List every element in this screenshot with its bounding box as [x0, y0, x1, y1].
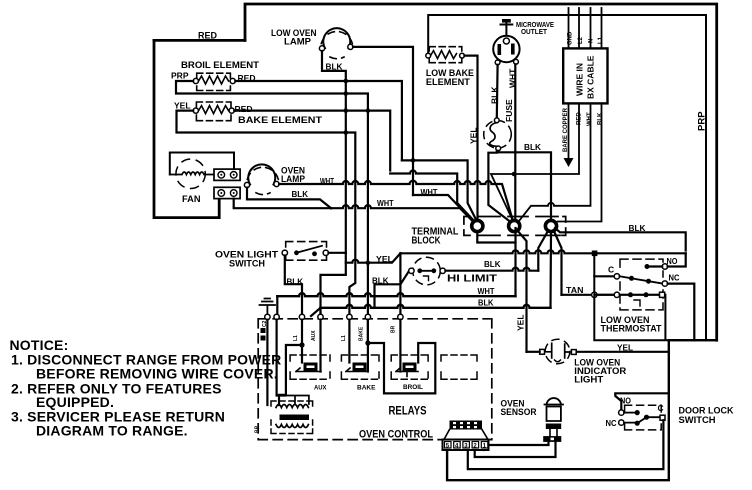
transformer secondary coil	[276, 425, 308, 428]
door lock lever dot	[644, 415, 649, 420]
svg-text:SWITCH: SWITCH	[679, 415, 716, 426]
lamp OVEN LAMP body	[248, 164, 275, 184]
wire terminal2 diagonal to YEL indicator vertical	[517, 230, 527, 352]
svg-text:THERMOSTAT: THERMOSTAT	[601, 324, 662, 335]
svg-text:BLK: BLK	[292, 189, 309, 199]
svg-text:BLK: BLK	[372, 276, 389, 286]
outer cabinet border top/right	[245, 4, 717, 340]
svg-text:NO: NO	[667, 256, 678, 266]
svg-text:NC: NC	[606, 418, 617, 428]
relay AUX dashed box	[290, 355, 330, 379]
svg-text:RED: RED	[198, 31, 217, 42]
svg-text:WIRE IN: WIRE IN	[575, 63, 585, 96]
wire fan connector lower-right to WHT run B	[234, 199, 331, 209]
small squares label marks	[261, 328, 266, 333]
hi limit contact dots	[417, 268, 422, 273]
wire YEL-bus branch down to thermostat C1	[594, 275, 614, 277]
svg-text:BAKE: BAKE	[357, 385, 376, 392]
wire wrap around broil relay	[368, 343, 435, 393]
svg-text:BROIL ELEMENT: BROIL ELEMENT	[181, 60, 259, 71]
svg-text:BLK: BLK	[478, 298, 494, 308]
wire broil left to lower run	[176, 81, 343, 94]
thermostat row2 C2 terminal	[614, 292, 619, 297]
bake element dashed box	[196, 102, 231, 121]
outer border right jog at bottom	[447, 340, 717, 480]
relay BAKE coil	[353, 363, 367, 372]
microwave outlet ground pin symbol	[501, 20, 513, 35]
junction dot bake-upper / broil-lower	[366, 108, 371, 113]
svg-text:FUSE: FUSE	[504, 99, 514, 122]
junction dot line1 at x=413	[411, 158, 416, 163]
svg-text:YEL: YEL	[469, 127, 479, 144]
connector pin strip	[443, 440, 489, 451]
wire fuse-left vertical to terminal 2 fan	[488, 151, 512, 223]
terminal block terminal 3	[545, 220, 556, 231]
wire YEL bus main run to thermostat NO riser	[400, 250, 685, 253]
thermostat switch1 lever	[620, 276, 662, 283]
wire A: oven lamp WHT run to terminal block fan	[279, 181, 513, 221]
indicator light base mark	[555, 360, 561, 362]
wire switch right terminal to riser x=345.8	[329, 252, 346, 254]
indicator light terminal left square	[540, 349, 545, 354]
plug legs to pin strip	[444, 430, 488, 440]
svg-text:PRP: PRP	[171, 71, 189, 81]
fan winding line	[170, 172, 218, 175]
thermostat NO dot	[645, 264, 650, 269]
fuse terminal bottom	[496, 146, 501, 151]
terminal block terminal 2	[509, 220, 520, 231]
svg-text:BR: BR	[391, 325, 397, 333]
wire BLK bus2 over oven control with hops	[321, 305, 551, 308]
wire AUX junction to transformer (L path)	[279, 345, 302, 405]
outlet terminal right	[514, 59, 519, 64]
oven sensor body	[545, 405, 564, 422]
wire low bake right to vertical YEL down to terminal 1	[464, 56, 477, 220]
oven light switch terminal left	[282, 250, 287, 255]
thermostat row2 mark	[634, 300, 640, 306]
svg-text:RED: RED	[577, 112, 583, 125]
oven control terminal 2	[274, 314, 279, 319]
rotated pin labels inside oven control	[255, 320, 397, 433]
wire RED below box, down then left to terminal fan	[491, 103, 579, 222]
low oven lamp terminal right	[348, 44, 353, 49]
wire terminal6 down to BAKE/wrap junction	[367, 320, 369, 372]
indicator light terminal right square	[571, 350, 576, 355]
fan connector lower circles	[218, 190, 225, 197]
bus2 left diagonal into terminal 4 riser	[311, 308, 321, 316]
oven sensor plug block	[543, 436, 561, 442]
svg-text:L1: L1	[293, 335, 299, 341]
svg-text:BX CABLE: BX CABLE	[586, 55, 596, 99]
box WIRE IN BX CABLE	[563, 48, 607, 103]
junction dot BAKE wrap feed	[365, 340, 370, 345]
broil terminal left	[193, 78, 198, 83]
svg-text:BAKE ELEMENT: BAKE ELEMENT	[238, 115, 322, 126]
broil element dashed box	[197, 73, 231, 90]
fan motor circle dashed	[176, 159, 205, 188]
wire terminal2 down to WHT bus	[514, 228, 516, 296]
svg-text:WHT: WHT	[478, 286, 496, 296]
oven control plug block (striped)	[450, 421, 483, 430]
door lock NO dot	[635, 410, 640, 415]
door lock NC terminal	[619, 420, 624, 425]
junction dots on vertical x=345.8	[344, 79, 349, 135]
relay AUX contact	[296, 368, 321, 372]
oven sensor neck stubs	[550, 429, 557, 436]
wire broil lower run continues to corner down	[349, 94, 368, 108]
wire vertical x=367.9 lower part to oven control terminal 6	[367, 113, 369, 342]
svg-text:GND: GND	[568, 31, 574, 45]
svg-text:SENSOR: SENSOR	[501, 407, 537, 418]
outlet center hole	[503, 38, 509, 44]
relay BROIL contact	[396, 368, 418, 377]
relay BAKE contact	[346, 368, 368, 372]
svg-text:LIGHT: LIGHT	[574, 375, 603, 386]
relay spare dashed box	[441, 355, 477, 379]
wire bake left to lower run	[177, 111, 356, 181]
svg-text:ELEMENT: ELEMENT	[426, 77, 470, 88]
wire NC right and down to box bottom line	[668, 284, 695, 341]
wire C down to bottom run to connector	[468, 420, 664, 469]
low oven lamp terminal left	[319, 46, 324, 51]
fuse terminal top	[494, 118, 499, 123]
wire BARE COPPER below box with earth arrow	[568, 103, 570, 158]
outlet slot left	[498, 44, 502, 55]
oven control terminal 4	[318, 314, 323, 319]
relay AUX coil	[304, 363, 318, 372]
resistor broil element zigzag	[199, 76, 229, 84]
door lock NO bar	[624, 412, 637, 414]
svg-text:BLK: BLK	[598, 112, 604, 125]
fan motor box	[170, 153, 234, 175]
indicator light filament bars	[546, 343, 570, 358]
transformer top stub	[286, 396, 309, 405]
wire vertical x=355.3 lower part jog to oven control terminal 5	[349, 181, 355, 315]
lamp LOW OVEN LAMP body	[323, 28, 350, 48]
oven control terminal 1	[265, 314, 270, 319]
svg-text:BLK: BLK	[524, 142, 542, 152]
wire L2 above box	[578, 8, 580, 48]
svg-text:OVEN CONTROL: OVEN CONTROL	[359, 429, 433, 441]
svg-text:PRP: PRP	[697, 111, 708, 131]
hi limit terminal left	[409, 268, 414, 273]
svg-text:SWITCH: SWITCH	[229, 259, 265, 270]
thermostat NC terminal	[662, 281, 667, 286]
svg-text:C: C	[658, 403, 664, 413]
wire BLK below box, down then left to terminal 3	[554, 103, 602, 223]
door lock switch top wire from NO up over to border leg	[615, 393, 669, 410]
wire oven lamp left terminal down then right (BLK) merging into run B	[247, 188, 331, 209]
wire GND above box	[568, 8, 570, 48]
relay BAKE dashed box	[341, 355, 379, 379]
oven light switch lever	[297, 246, 323, 253]
oven lamp terminal left	[244, 182, 249, 187]
relay BROIL coil	[403, 363, 417, 372]
svg-text:BROIL: BROIL	[403, 384, 423, 391]
svg-text:C: C	[608, 265, 614, 275]
HI LIMIT dashed circle	[413, 257, 441, 285]
oven sensor band	[546, 424, 561, 430]
wire outlet right down to terminal 2 (WHT)	[514, 64, 516, 219]
oven light switch terminal right	[323, 250, 328, 255]
pin numbers	[446, 444, 487, 450]
svg-text:L1: L1	[341, 335, 347, 341]
oven control terminal 7	[398, 314, 403, 319]
oven light switch dashed box	[286, 242, 327, 261]
svg-text:BLK: BLK	[629, 223, 647, 233]
bake terminal left	[193, 108, 198, 113]
thermostat NO terminal	[662, 264, 667, 269]
wire bake upper run right	[234, 111, 390, 171]
oven lamp terminal right	[274, 181, 279, 186]
svg-text:BARE COPPER: BARE COPPER	[563, 107, 569, 152]
wire WHT bus1 over oven control with hops	[277, 293, 515, 296]
broil terminal right	[230, 78, 235, 83]
terminal circle on TAN at thermostat box edge	[592, 292, 597, 297]
outer border step top-left, wire RED	[154, 39, 245, 42]
svg-text:BR: BR	[255, 425, 261, 433]
svg-text:RELAYS: RELAYS	[389, 406, 427, 418]
relay BROIL dashed box	[391, 355, 428, 379]
wire terminal2 down to transformer	[277, 320, 286, 396]
oven control dashed box	[258, 319, 492, 440]
svg-text:N: N	[589, 39, 595, 43]
transformer primary coil	[276, 405, 308, 408]
transformer core	[280, 415, 310, 421]
fuse element S-curve	[490, 123, 498, 147]
indicator light dashed circle	[545, 339, 570, 364]
fan connector box lower	[214, 187, 240, 198]
fuse dashed circle	[484, 121, 512, 149]
wire N above box	[590, 8, 592, 48]
svg-text:L2: L2	[578, 36, 584, 44]
svg-text:BAKE: BAKE	[359, 326, 365, 341]
svg-text:BEFORE REMOVING WIRE COVER.: BEFORE REMOVING WIRE COVER.	[36, 366, 278, 382]
oven light switch contact dots	[294, 250, 299, 255]
wire terminal3 down to BLK bus2	[549, 232, 552, 308]
svg-text:BLOCK: BLOCK	[412, 236, 442, 247]
svg-text:AUX: AUX	[311, 330, 317, 341]
hi limit reset mark	[424, 276, 429, 281]
svg-text:NO: NO	[620, 396, 631, 406]
svg-text:HI LIMIT: HI LIMIT	[447, 274, 497, 285]
thermostat switch1 dots	[629, 276, 634, 281]
fan connector upper circles	[218, 172, 225, 179]
svg-text:NC: NC	[669, 273, 680, 283]
wire terminal3 diagonal down-left to BLK hi-limit line	[538, 230, 548, 271]
oven lamp dashed ring	[247, 167, 278, 194]
wire outlet left down to fuse	[496, 65, 499, 118]
door lock C square terminal	[660, 415, 665, 420]
svg-text:OUTLET: OUTLET	[521, 29, 548, 36]
wire sensor pin A to connector pin 1	[484, 442, 549, 450]
wire switch left terminal BLK down to oven control terminal 3	[285, 256, 302, 315]
door lock NC bar and lever to C	[624, 417, 660, 423]
transformer dashed box	[271, 401, 313, 434]
wire terminal1 down to transformer	[266, 320, 268, 405]
door lock NC dot	[635, 421, 640, 426]
thermostat row2 square contact	[660, 292, 665, 297]
wire fuse bottom BLK to terminal 3	[498, 151, 551, 220]
wire bus1 left end down to oven control terminal 2	[276, 296, 278, 314]
bare copper arrow head	[564, 158, 574, 167]
thermostat solid box	[594, 256, 716, 340]
oven control terminal 6	[365, 314, 370, 319]
wire line1: broil upper feed across to fan (y=160.4)	[402, 160, 476, 219]
outlet MICROWAVE OUTLET circle	[493, 36, 519, 62]
wire B: fan/lamp BLK run to terminal block fan	[331, 205, 476, 224]
low bake terminal left	[426, 53, 431, 58]
resistor low bake element zigzag	[431, 51, 457, 59]
outlet slot right	[511, 44, 515, 55]
wire indicator left to YEL vertical	[527, 351, 540, 353]
door lock dashed box	[625, 405, 662, 430]
wire terminal3 right to thermostat NO (BLK)	[555, 228, 686, 251]
outer border left side	[154, 40, 219, 217]
junction dot YEL at x=367.9	[366, 260, 371, 265]
svg-text:LAMP: LAMP	[284, 37, 312, 48]
wire low oven lamp right to vertical x=413	[353, 47, 413, 195]
wire YEL from indicator light to border leg	[576, 351, 669, 353]
thermostat row2 dots	[628, 292, 633, 297]
svg-text:L1: L1	[598, 36, 604, 44]
wire riser continues: YEL corner, staircase to oven control terminal 4	[321, 253, 346, 314]
wire PRP: from low bake element up and across top, down right side	[428, 15, 706, 340]
svg-text:YEL: YEL	[174, 101, 191, 111]
fan connector box upper	[214, 169, 240, 180]
junction dot AUX feed	[299, 342, 304, 347]
svg-text:MICROWAVE: MICROWAVE	[516, 22, 554, 29]
oven sensor bulb dome	[547, 398, 562, 404]
terminal block terminal 1	[472, 220, 483, 231]
oven control terminal 5	[347, 314, 352, 319]
svg-text:BLK: BLK	[484, 259, 501, 269]
wire BLK from hi limit right to terminal3 riser with hops	[445, 268, 538, 271]
svg-text:WHT: WHT	[587, 112, 593, 126]
svg-text:AUX: AUX	[314, 385, 327, 392]
thermostat row2 bar	[620, 294, 660, 296]
wire terminal4 down into AUX relay contact	[319, 320, 321, 372]
outlet terminal left	[495, 60, 500, 65]
wire terminal7 down into BROIL relay	[399, 320, 401, 372]
hi limit contact bar	[420, 270, 434, 272]
wire broil upper run to the right	[235, 81, 402, 160]
wire diagonal to HI LIMIT left terminal	[400, 271, 409, 284]
low bake element dashed box	[429, 47, 462, 63]
wire terminal5 down into BAKE relay coil	[348, 320, 350, 363]
wire YEL run from riser to jog with hop over x=355.3, dot at x=367.9	[346, 253, 401, 262]
junction dot RED wire at x=514.3	[512, 172, 517, 177]
resistor bake element zigzag	[199, 106, 229, 114]
terminal block dashed box	[464, 217, 566, 236]
low bake terminal right	[460, 53, 465, 58]
square junction dot YEL bus	[592, 251, 598, 257]
wire terminal3 diagonal down-right to TAN line	[554, 230, 562, 295]
wire terminal1 jumper down-right to terminal2 vertical	[477, 232, 515, 243]
wire NO to YEL bus riser	[647, 253, 686, 266]
pin cells	[445, 442, 488, 449]
wire sensor pin B to connector pin 2	[475, 442, 556, 457]
svg-text:TAN: TAN	[566, 285, 584, 295]
wire BLK from hi-limit area left segment	[375, 284, 401, 308]
svg-text:RED: RED	[235, 104, 253, 114]
wire YEL bus vertical down to oven control terminal 7	[399, 253, 401, 314]
svg-text:FAN: FAN	[182, 194, 201, 205]
wire L1 above box	[601, 8, 603, 48]
chassis ground symbol above terminal 1	[260, 299, 276, 315]
svg-text:WHT: WHT	[377, 198, 394, 208]
bake terminal right	[229, 108, 234, 113]
svg-text:YEL: YEL	[516, 314, 526, 331]
wire WHT below box, down then left to terminal fan	[517, 103, 591, 223]
hi limit terminal right	[440, 268, 445, 273]
low oven lamp dashed ring	[321, 31, 352, 58]
wire line2: bake upper feed across (y=173.5) with hop over x=413	[390, 171, 474, 222]
thermostat dashed box	[620, 259, 663, 310]
wire terminal3 down to AUX junction	[301, 320, 303, 363]
wire low oven lamp left down to BLK bus	[322, 51, 346, 253]
door lock NO terminal	[619, 410, 624, 415]
oven control terminal 3	[299, 314, 304, 319]
wire TAN from terminal3 leg to thermostat row2	[562, 294, 615, 296]
thermostat C1 terminal	[614, 274, 619, 279]
wire line C from oven lamp right vertical to terminal 1	[413, 195, 474, 223]
svg-text:DIAGRAM TO RANGE.: DIAGRAM TO RANGE.	[36, 423, 188, 439]
